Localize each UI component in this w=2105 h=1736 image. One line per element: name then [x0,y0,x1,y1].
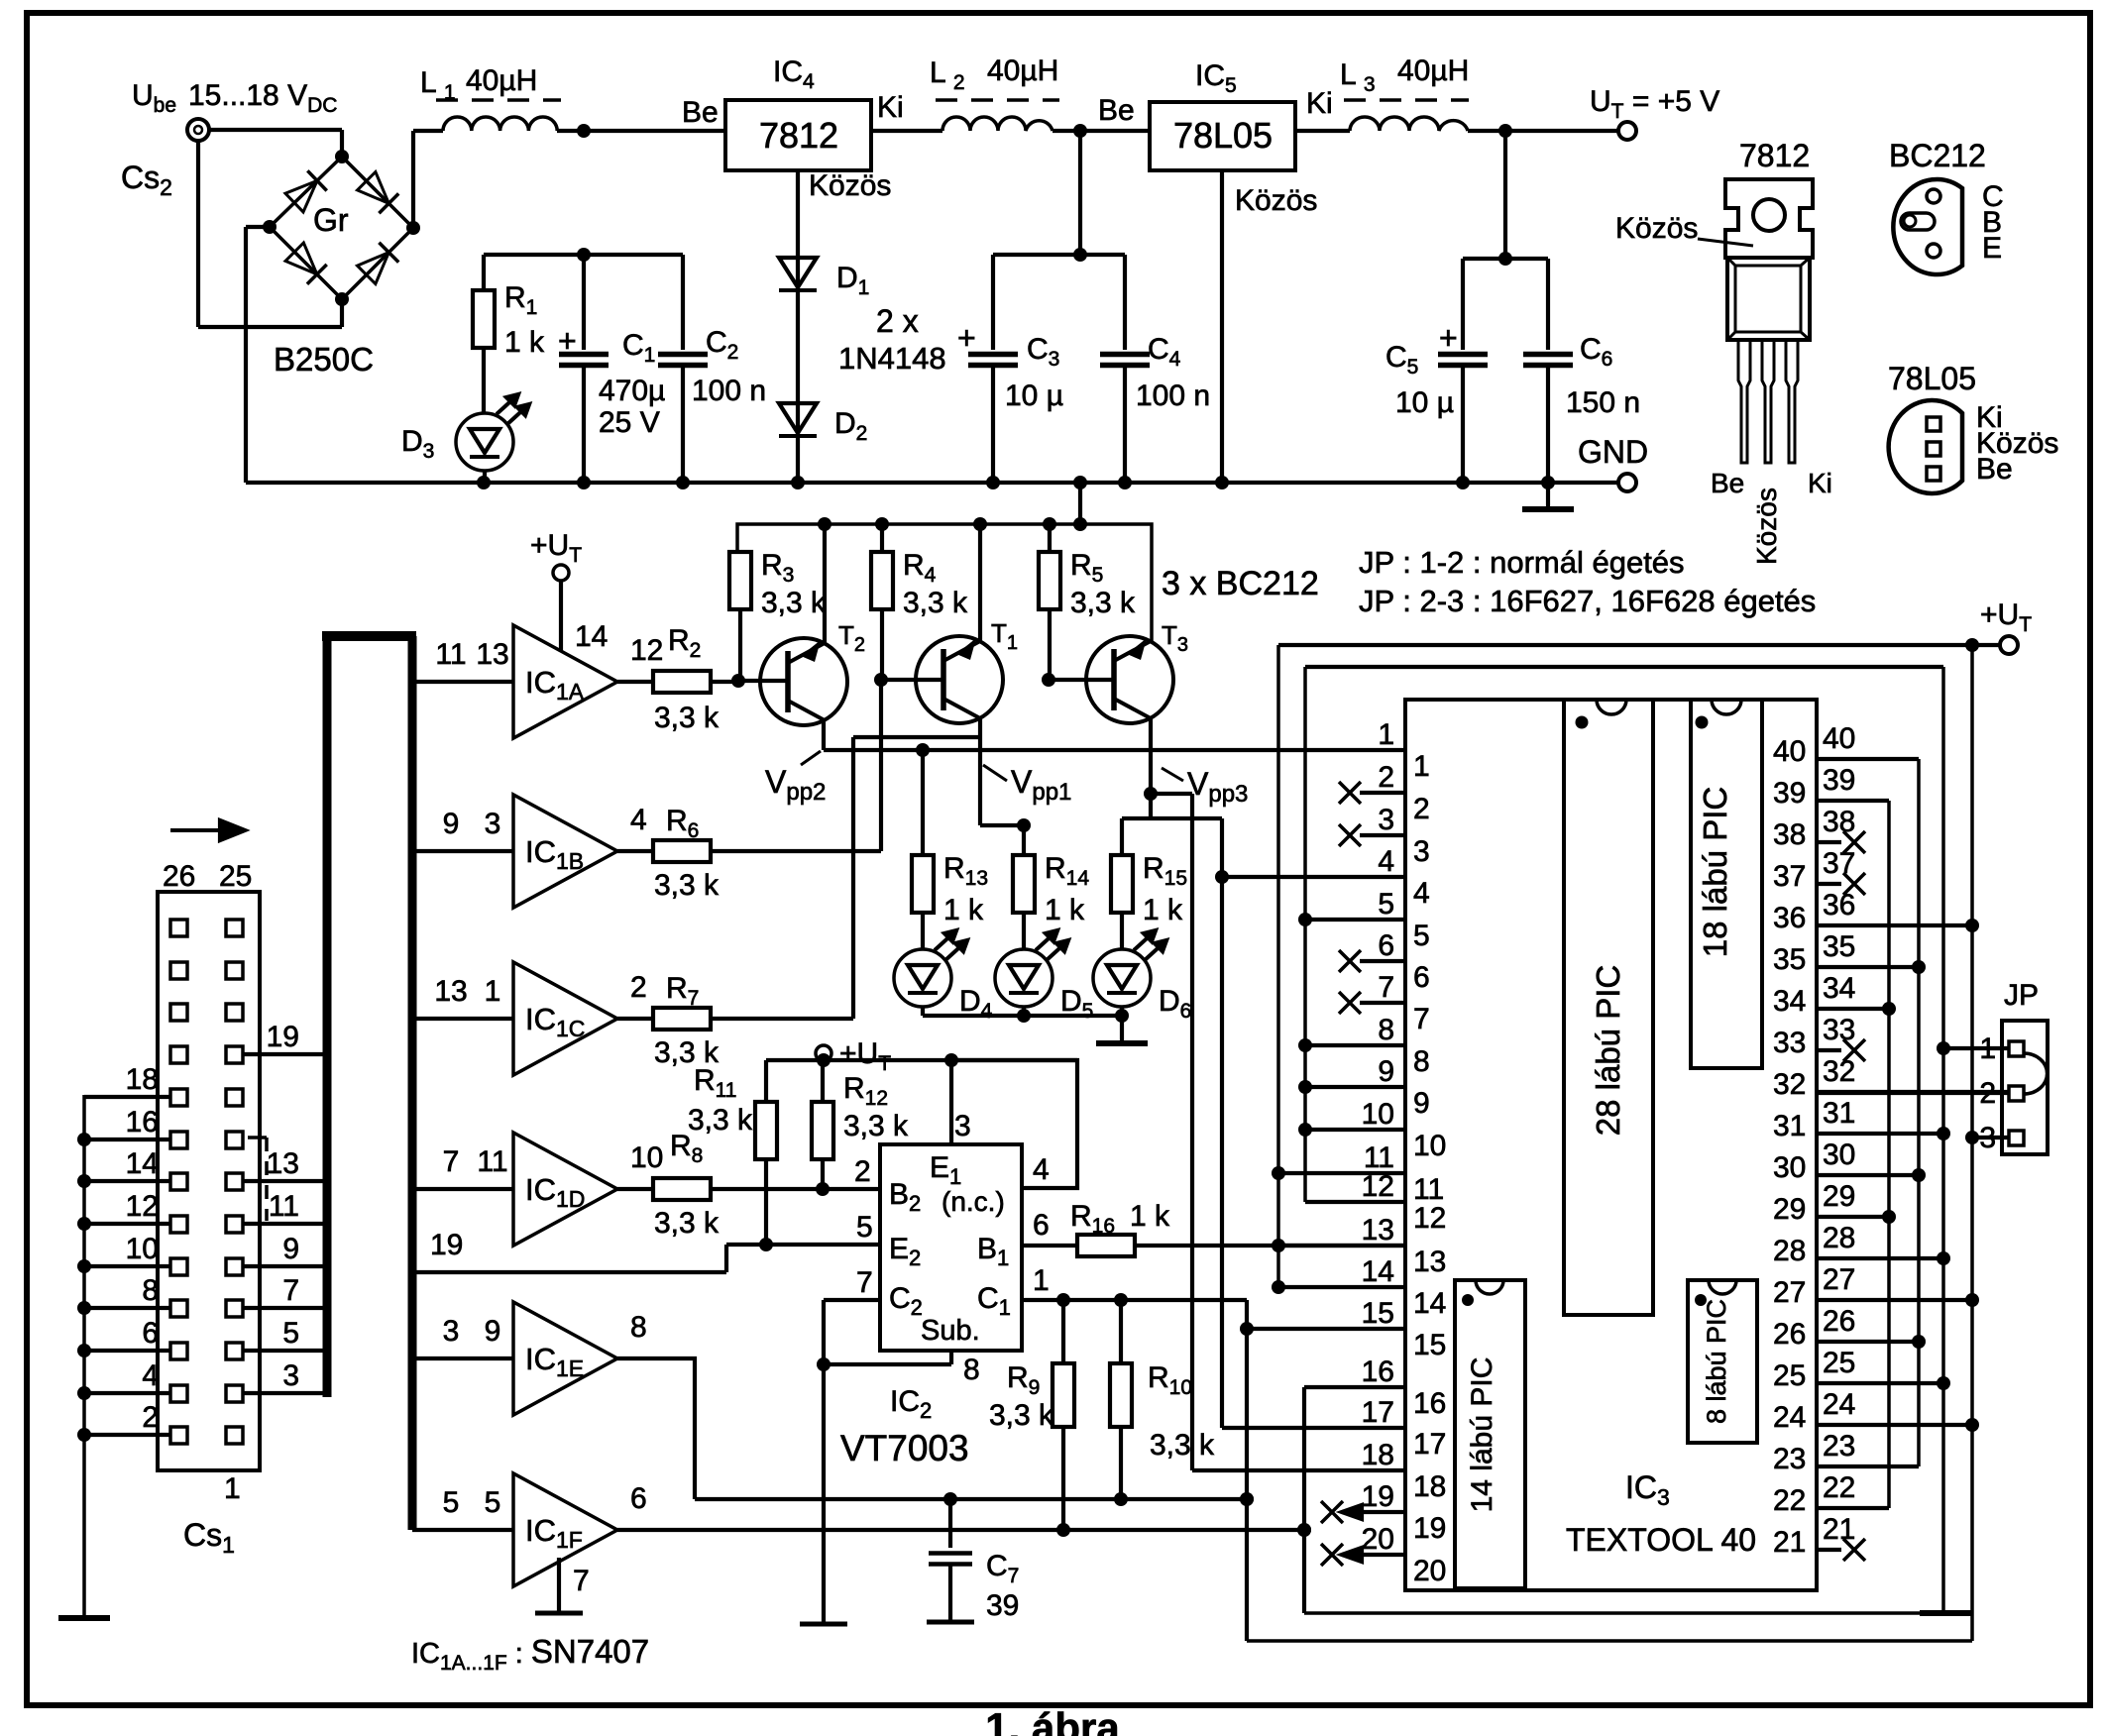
node T2 base [731,674,745,688]
svg-text:Közös: Közös [1235,184,1317,217]
wire L2 to IC5 [1052,129,1150,133]
wire 19 riser to E2 [724,1245,728,1272]
svg-text:21: 21 [1773,1526,1806,1559]
resistor R3 3.3k [729,552,751,609]
bridge rectifier Gr B250C [270,157,413,299]
IC3 pin 27 row right [1818,1298,1972,1302]
node R13 top [916,743,930,757]
riser Vpp3 to pin18 [1190,794,1194,1470]
svg-text:19: 19 [1413,1512,1446,1545]
svg-text:18: 18 [126,1063,159,1096]
svg-text:Közös: Közös [809,169,891,202]
IC3 pin 22 row right [1818,1506,1889,1510]
svg-text:1: 1 [1378,718,1394,751]
diode D2 1N4148 [779,403,817,433]
svg-text:150 n: 150 n [1566,386,1640,419]
svg-text:16: 16 [1413,1387,1446,1420]
wire Ube minus to bridge bottom [198,325,342,329]
capacitor C2 100n [681,255,685,350]
pin 14 stub +UT on IC1A [553,565,569,581]
buffer IC1E output [617,1358,695,1499]
svg-text:31: 31 [1823,1097,1855,1130]
svg-text:19: 19 [1362,1480,1394,1513]
svg-text:11: 11 [477,1145,507,1178]
dashed line near Cs1 pins 13 11 [265,1138,269,1221]
svg-text:3,3 k: 3,3 k [654,1207,720,1240]
resistor R14 1k [1022,825,1026,855]
svg-text:100 n: 100 n [692,375,766,407]
svg-text:3,3 k: 3,3 k [1150,1429,1215,1462]
svg-text:5: 5 [856,1211,873,1244]
resistor R15 1k [1120,818,1124,855]
emitter T2 to bus [823,524,827,643]
regulator IC5 78L05 [1150,102,1295,170]
capacitor C3 10u [991,255,995,350]
wire L1 to IC4 [557,129,725,133]
ground rail power section [246,481,1618,485]
emitter T1 to bus [978,524,982,641]
node R14 top [1017,818,1031,832]
svg-text:7812: 7812 [1739,138,1810,173]
wire Cs1 pin 13 to bus [243,1179,327,1183]
bridge diode top-right [357,171,388,203]
IC3 pin 10 row [1305,1128,1405,1132]
svg-text:7: 7 [443,1145,460,1178]
buffer IC1E input wire [412,1356,513,1360]
svg-text:3,3 k: 3,3 k [989,1399,1054,1432]
wire Cs1 pin 2 [84,1433,170,1437]
IC3 pin 11 row [1278,1171,1405,1175]
left rail from Cs1 even pins [82,1095,86,1615]
IC3 pin 38 row right [1818,840,1841,844]
IC3 socket outline TEXTOOL 40 [1405,700,1817,1590]
svg-text:3: 3 [485,808,501,840]
svg-text:9: 9 [1378,1055,1394,1088]
28 pin PIC box [1564,700,1653,1315]
buffer IC1A [513,625,617,738]
junction ground rail [477,476,491,489]
wire C2 down to ground [822,1300,826,1622]
rail left outer 2 [1303,667,1307,1202]
svg-text:UT = +5 V: UT = +5 V [1590,85,1719,123]
thick bus vertical right [408,636,417,1530]
wire IC5 kozos down [1220,170,1224,483]
pin 7 ground IC1F [557,1558,561,1611]
node bridge bottom [335,292,349,306]
svg-text:9: 9 [282,1233,299,1265]
svg-text:2: 2 [1413,793,1430,825]
IC3 pin 25 row right [1818,1381,1943,1385]
ground symbol Cs1 rail [58,1615,110,1621]
capacitor C4 100n [1123,255,1127,350]
svg-text:32: 32 [1773,1068,1806,1101]
svg-text:3,3 k: 3,3 k [1070,587,1136,619]
collector T3 down to Vpp3 [1149,718,1153,794]
svg-text:E: E [1982,232,2002,265]
svg-text:40µH: 40µH [466,64,537,97]
svg-text:40µH: 40µH [1397,54,1469,87]
capacitor C6 150n [1546,259,1550,350]
svg-text:28: 28 [1823,1222,1855,1254]
svg-text:25 V: 25 V [599,406,660,439]
svg-text:18 lábú PIC: 18 lábú PIC [1697,787,1733,957]
wire JP3 [1972,1136,2009,1139]
svg-text:28: 28 [1773,1235,1806,1267]
svg-text:6: 6 [1413,961,1430,994]
svg-text:9: 9 [1413,1087,1430,1120]
svg-text:35: 35 [1823,930,1855,963]
svg-text:39: 39 [1773,777,1806,810]
svg-text:17: 17 [1413,1428,1446,1461]
riser C1 row to bottom [1245,1300,1249,1641]
wire IC5 to L3 [1295,129,1350,133]
wire R7 right [711,1017,853,1021]
IC3 pin 32 row right [1818,1090,2008,1094]
svg-text:JP : 2-3 : 16F627, 16F628 ég: JP : 2-3 : 16F627, 16F628 égetés [1359,584,1816,618]
svg-text:8: 8 [963,1354,980,1386]
svg-text:36: 36 [1773,902,1806,934]
pin 3 E1 stub [949,1060,953,1144]
svg-text:3,3 k: 3,3 k [903,587,968,619]
svg-text:78L05: 78L05 [1888,361,1976,396]
wire JP2 [1818,1091,2009,1095]
svg-text:13: 13 [476,638,508,671]
wire Vpp3 to R15 and pin17 riser [1149,794,1153,818]
svg-text:26: 26 [1823,1305,1855,1338]
ground symbol LEDs [1120,1016,1124,1041]
svg-text:2: 2 [1378,761,1394,794]
wire Cs1 pin 10 [84,1264,170,1268]
wire JP1 [1943,1046,2009,1050]
svg-text:6: 6 [630,1482,647,1515]
svg-text:Be: Be [1098,94,1135,127]
svg-text:35: 35 [1773,943,1806,976]
svg-text:31: 31 [1773,1110,1806,1142]
IC3 pin 6 row [1339,950,1361,972]
node T3 base [1042,673,1055,687]
svg-text:7812: 7812 [759,115,838,156]
resistor R13 1k [921,750,925,855]
wire riser to Vpp1 row [851,737,855,1019]
inductor L2 40uH [942,117,1052,131]
rail left outer 1 [1276,645,1280,1287]
svg-text:39: 39 [986,1589,1019,1622]
wire bridge left to ground rail [246,225,270,229]
IC3 pin 29 row right [1818,1215,1889,1219]
svg-text:28 lábú PIC: 28 lábú PIC [1590,965,1626,1136]
resistor R10 3.3k [1119,1300,1123,1363]
svg-text:38: 38 [1823,806,1855,838]
svg-text:2 x: 2 x [876,303,919,339]
LED D6 [1093,949,1151,1007]
riser pin16 to bottom rail [1302,1387,1306,1613]
svg-text:1: 1 [1033,1264,1050,1297]
svg-text:26: 26 [163,860,195,893]
svg-text:29: 29 [1773,1193,1806,1226]
node C3C4 rail [1073,248,1087,262]
18 pin PIC box [1691,700,1762,1068]
svg-text:4: 4 [1033,1153,1050,1186]
svg-text:7: 7 [282,1274,299,1307]
svg-text:5: 5 [1413,920,1430,952]
wire Cs1 pin 3 to bus [243,1391,327,1395]
node after L3 [1498,124,1512,138]
svg-text:2: 2 [854,1155,871,1188]
label Vpp2 [801,751,821,765]
resistor R6 3.3k [617,849,653,853]
svg-text:6: 6 [142,1317,159,1350]
junction +UT bus [1043,517,1056,531]
wire Cs1 pin 6 [84,1349,170,1353]
junction ground rail [791,476,805,489]
LED cathode rail [923,1014,1122,1018]
svg-text:1 k: 1 k [943,894,984,926]
buffer IC1F input wire [412,1528,513,1532]
svg-text:+: + [957,320,976,356]
diode D1 1N4148 [779,258,817,287]
svg-text:1. ábra: 1. ábra [985,1704,1120,1736]
svg-text:TEXTOOL 40: TEXTOOL 40 [1566,1522,1756,1558]
svg-text:27: 27 [1773,1276,1806,1309]
svg-text:Ki: Ki [1808,468,1832,498]
connector Cs1 outline [158,892,260,1470]
wire Cs1 pin 12 [84,1222,170,1226]
wire R6 to T1 base riser [711,849,881,853]
wire Vpp3 node [1144,787,1158,801]
wire Cs1 pin 19 to bus [243,1052,327,1056]
svg-text:14: 14 [575,620,608,653]
svg-text:Közös: Közös [1751,488,1782,565]
IC3 pin 2 row [1339,782,1361,804]
junction +UT bus [973,517,987,531]
IC3 pin 33 row right [1818,1048,1841,1052]
svg-text:37: 37 [1823,847,1855,880]
resistor R9 3.3k [1061,1300,1065,1363]
svg-text:JP: JP [2004,979,2039,1012]
svg-text:1: 1 [1413,750,1430,783]
svg-text:20: 20 [1413,1555,1446,1587]
junction +UT bus [1073,517,1087,531]
stub ground rail to +UT bus [1078,483,1082,524]
svg-text:6: 6 [1378,929,1394,962]
bridge diode bottom-left [285,243,317,274]
transistor T2 BC212 [760,638,847,725]
wire bridge right up to L1 [411,131,415,228]
svg-text:7: 7 [1378,971,1394,1004]
svg-text:18: 18 [1413,1470,1446,1503]
svg-text:27: 27 [1823,1263,1855,1296]
node C1 top rail [577,248,591,262]
svg-text:19: 19 [430,1229,463,1261]
LED D5 [995,949,1052,1007]
svg-text:+: + [558,323,577,359]
svg-text:4: 4 [630,804,647,836]
wire Cs1 pin 11 to bus [243,1222,327,1226]
svg-text:1: 1 [224,1472,241,1505]
IC3 pin 21 row right [1818,1548,1841,1552]
wire C1 row [1022,1298,1247,1302]
wire Cs1 pin 9 to bus [243,1264,327,1268]
wire Cs1 pin 18 [84,1095,170,1099]
wire Ube to bridge top [209,128,342,132]
svg-text:23: 23 [1773,1443,1806,1475]
bridge diode bottom-right [357,253,388,284]
svg-text:Be: Be [1976,453,2013,486]
resistor R5 3.3k [1048,524,1052,552]
wire R8 to IC2 B2 [711,1187,880,1191]
wire IC4 kozos down [796,170,800,483]
node after L2 [1073,124,1087,138]
svg-text:22: 22 [1823,1471,1855,1504]
IC3 pin 23 row right [1818,1465,1919,1468]
IC3 pin 35 row right [1818,965,1919,969]
IC3 pin 15 row [1247,1327,1405,1331]
svg-text:30: 30 [1773,1151,1806,1184]
inductor L3 40uH [1350,117,1468,131]
wire 19 from bus to E2 [412,1270,726,1274]
svg-text:19: 19 [267,1021,299,1053]
wire Vpp1 row [980,823,1024,827]
svg-text:BC212: BC212 [1889,138,1986,173]
svg-text:15: 15 [1413,1329,1446,1361]
IC3 pin 13 row [1278,1244,1405,1248]
svg-text:1 k: 1 k [1130,1200,1170,1233]
IC3 pin 28 row right [1818,1256,1943,1260]
svg-text:11: 11 [435,638,466,671]
8 pin PIC box [1688,1280,1757,1443]
svg-text:25: 25 [1773,1359,1806,1392]
svg-text:3: 3 [1378,804,1394,836]
node T1 base [874,673,888,687]
svg-text:13: 13 [1413,1246,1446,1278]
wire Ube down [196,141,200,327]
node bridge top [335,150,349,163]
inductor L1 40uH [443,117,557,131]
svg-text:4: 4 [1378,845,1394,878]
svg-text:9: 9 [443,808,460,840]
svg-text:12: 12 [630,634,663,667]
arrow above Cs1 [170,828,234,832]
svg-text:(n.c.): (n.c.) [942,1186,1005,1217]
junction ground rail [1456,476,1470,489]
svg-text:Ki: Ki [877,91,904,124]
svg-text:30: 30 [1823,1139,1855,1171]
capacitor C5 10u [1461,259,1465,350]
resistor R8 3.3k [617,1187,653,1191]
collector T1 down [978,718,982,825]
svg-text:8: 8 [1378,1014,1394,1046]
svg-text:13: 13 [267,1147,299,1180]
svg-text:6: 6 [1033,1209,1050,1242]
junction ground rail [676,476,690,489]
IC3 pin 36 row right [1818,923,1972,927]
svg-text:21: 21 [1823,1513,1855,1546]
bottom rail 1628 [1304,1611,1920,1615]
svg-text:25: 25 [219,860,252,893]
svg-text:2: 2 [142,1401,159,1434]
buffer IC1D [513,1133,617,1246]
JP connector [2002,1021,2048,1154]
IC3 pin 14 row [1278,1285,1405,1289]
svg-text:3: 3 [443,1315,460,1348]
wire E1 nc loop [951,1060,1077,1188]
svg-text:18: 18 [1362,1439,1394,1471]
buffer IC1E [513,1302,617,1415]
svg-text:Be: Be [682,96,719,129]
wire C5 C6 junction down [1503,131,1507,259]
wire Cs1 pin 4 [84,1391,170,1395]
svg-text:14 lábú PIC: 14 lábú PIC [1466,1357,1498,1513]
IC3 pin 16 row [1304,1385,1405,1389]
svg-text:40µH: 40µH [987,54,1058,87]
IC3 pin 8 row [1305,1043,1405,1047]
wire Cs1 pin 16 [84,1138,170,1141]
svg-text:17: 17 [1362,1396,1394,1429]
svg-text:4: 4 [142,1359,159,1392]
svg-text:7: 7 [1413,1003,1430,1035]
svg-text:16: 16 [126,1106,159,1139]
14 pin PIC box [1455,1280,1525,1588]
resistor R11 3.3k [755,1102,777,1159]
wire +UT to IC2 top rail [822,1060,826,1061]
svg-text:36: 36 [1823,889,1855,922]
wire C5 C6 top rail [1463,257,1548,261]
IC3 pin 39 row right [1818,799,1889,803]
svg-text:10: 10 [1362,1098,1394,1131]
IC3 pin 31 row right [1818,1132,1943,1136]
Cs1 pin squares [170,920,187,936]
svg-text:5: 5 [282,1317,299,1350]
buffer IC1C input wire [412,1017,513,1021]
buffer IC1B input wire [412,849,513,853]
IC3 pin 3 row [1339,824,1361,846]
junction ground rail [1073,476,1087,489]
svg-text:7: 7 [573,1565,590,1597]
svg-text:20: 20 [1362,1523,1394,1556]
svg-text:8: 8 [1413,1045,1430,1078]
bottom rail 1656 [1247,1639,1972,1643]
capacitor C1 470u 25V [582,255,586,350]
svg-text:3,3 k: 3,3 k [688,1104,753,1137]
svg-text:7: 7 [856,1266,873,1299]
right vertical rail 1990 [1970,645,1974,1641]
riser to pin17 [1220,818,1224,1428]
svg-text:38: 38 [1773,818,1806,851]
buffer IC1F output [617,1528,1304,1532]
svg-text:3,3 k: 3,3 k [761,587,827,619]
svg-text:8: 8 [142,1274,159,1307]
wire C3 C4 junction down [1078,131,1082,255]
svg-text:10: 10 [1413,1130,1446,1162]
IC3 pin 40 row right [1818,757,1919,761]
svg-text:16: 16 [1362,1356,1394,1388]
IC3 pin 5 row [1305,918,1405,922]
svg-text:13: 13 [1362,1214,1394,1247]
LED D3 [456,413,513,471]
wire IC1E output row [695,1497,1247,1501]
wire rail to R11 [764,1060,768,1102]
buffer IC1C [513,962,617,1075]
svg-text:+: + [1439,320,1458,356]
svg-text:470µ: 470µ [599,375,665,407]
collector T2 down to Vpp2 [822,720,826,750]
thick bus top bar [322,631,416,641]
svg-text:15: 15 [1362,1297,1394,1330]
IC3 pin 7 row [1339,992,1361,1014]
transistor T1 BC212 [916,636,1003,723]
svg-text:11: 11 [269,1190,299,1223]
wire R1 C1 C2 top rail [484,253,683,257]
